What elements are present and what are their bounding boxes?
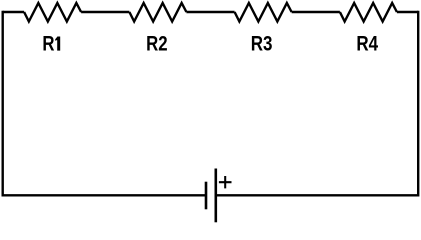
svg-text:R3: R3 [251, 33, 273, 56]
wire right vertical [417, 11, 419, 197]
label R1 digit 1 [55, 37, 60, 51]
battery V1 positive plate (long) [215, 169, 218, 223]
wire top segment 2 [81, 11, 129, 13]
wire top segment 3 [186, 11, 234, 13]
resistor R1 [24, 3, 81, 22]
resistor R4 [340, 3, 397, 22]
svg-text:R2: R2 [146, 33, 167, 56]
battery V1 negative plate (short) [205, 182, 208, 210]
battery plus sign [219, 176, 232, 188]
resistor R3 [235, 3, 292, 22]
svg-text:R: R [42, 33, 54, 56]
wire bottom left [3, 194, 206, 196]
wire top segment 1 [3, 11, 24, 13]
wire top segment 5 [397, 11, 418, 13]
wire top segment 4 [292, 11, 340, 13]
wire left vertical [2, 11, 4, 197]
svg-text:R4: R4 [356, 33, 378, 56]
resistor R2 [129, 3, 186, 22]
wire bottom right [216, 194, 418, 196]
